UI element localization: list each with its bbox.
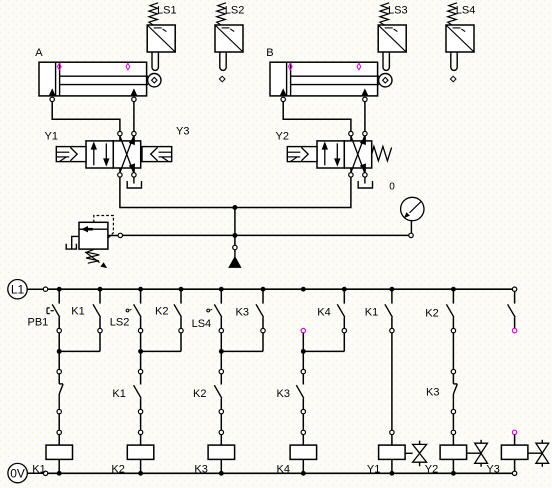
- node under K4: [342, 328, 346, 332]
- junction L1: [98, 287, 103, 292]
- junction L1: [261, 287, 266, 292]
- contact K3 (mid): [296, 374, 304, 410]
- junction L1: [301, 287, 306, 292]
- svg-text:Y3: Y3: [486, 463, 499, 475]
- plunger LS1: [152, 52, 158, 70]
- pressure source: [234, 250, 236, 258]
- flow arrows parallel position: [322, 141, 341, 166]
- port node A left: [50, 97, 54, 101]
- junction: [301, 349, 306, 354]
- relief pilot dashed line: [94, 216, 114, 239]
- marker under LS4: [450, 76, 456, 82]
- node under LS4: [219, 328, 223, 332]
- contact K2 (mid): [214, 374, 222, 410]
- svg-text:B: B: [266, 47, 273, 59]
- svg-text:K3: K3: [194, 463, 207, 475]
- valve symbol Y1: [405, 441, 427, 467]
- relief drain to tank: [72, 236, 79, 249]
- source riser wire: [234, 208, 236, 246]
- wire rung down: [302, 333, 304, 352]
- svg-text:K3: K3: [236, 306, 249, 318]
- limit switch LS1: [147, 25, 175, 52]
- svg-text:Y1: Y1: [45, 130, 58, 142]
- svg-text:LS2: LS2: [225, 4, 245, 16]
- wire branch down: [99, 333, 101, 352]
- port left bottom: [118, 168, 122, 177]
- contact K1 (top): [93, 289, 101, 328]
- svg-text:Y3: Y3: [176, 125, 189, 137]
- position marker A2: [126, 63, 130, 70]
- junction 0V: [138, 471, 143, 476]
- pressure relief valve body: [79, 222, 108, 249]
- node below mid contact: [138, 409, 142, 430]
- spring LS4: [448, 3, 457, 25]
- pressure gauge 0: [401, 197, 424, 220]
- relay coil Y1: [379, 430, 406, 471]
- node under K2 (top): [179, 328, 183, 332]
- junction supply: [232, 205, 237, 210]
- svg-text:LS4: LS4: [456, 4, 476, 16]
- valve body Y2: [317, 141, 372, 168]
- solenoid Y3: [142, 147, 172, 162]
- spring LS1: [149, 3, 158, 25]
- svg-text:K3: K3: [277, 388, 290, 400]
- node under K1 (branch Y1): [390, 328, 394, 332]
- node above source: [233, 245, 237, 249]
- rod roller A: [148, 74, 161, 87]
- flow arrows crossed position: [351, 135, 369, 174]
- position marker B2: [357, 63, 361, 70]
- port left bottom: [349, 168, 353, 177]
- junction L1: [57, 287, 62, 292]
- junction L1: [219, 287, 224, 292]
- junction 0V: [219, 471, 224, 476]
- branch join wire: [59, 350, 100, 352]
- svg-text:K2: K2: [111, 463, 124, 475]
- svg-text:K1: K1: [112, 388, 125, 400]
- relay coil K1: [46, 430, 73, 471]
- branch join wire: [141, 350, 181, 352]
- svg-text:K2: K2: [425, 307, 438, 319]
- wire to mid contact: [301, 351, 305, 373]
- svg-text:K1: K1: [365, 306, 378, 318]
- NC contact unnamed (mid): [59, 374, 63, 410]
- contact K2 (top): [174, 289, 182, 328]
- wire rung Y1: [391, 333, 393, 430]
- svg-text:K3: K3: [426, 386, 439, 398]
- contact K4: [337, 289, 345, 328]
- solenoid Y2: [287, 147, 317, 162]
- port left top: [349, 131, 353, 140]
- wire to mid contact: [57, 351, 61, 373]
- wire B right port to valve Y2 port: [364, 102, 366, 132]
- tank symbol: [66, 244, 76, 249]
- relief adjust arrow: [85, 252, 109, 270]
- svg-text:K4: K4: [317, 306, 330, 318]
- svg-text:LS4: LS4: [192, 318, 212, 330]
- node under K2 (branch Y2): [451, 328, 455, 332]
- exhaust symbol: [358, 177, 372, 188]
- limit switch LS4: [446, 25, 474, 52]
- port left top: [118, 131, 122, 140]
- contact PB1: [47, 289, 60, 328]
- svg-text:Y1: Y1: [367, 463, 380, 475]
- relief valve arrow: [81, 226, 93, 232]
- flow arrows crossed position: [120, 135, 138, 174]
- supply wire valve Y1 to valve Y2: [120, 177, 351, 207]
- branch join wire: [303, 350, 344, 352]
- relay coil K4: [290, 430, 317, 471]
- contact LS2: [126, 289, 141, 328]
- port node A right: [132, 97, 136, 101]
- power rail L1: [8, 280, 517, 299]
- svg-text:L1: L1: [11, 283, 25, 297]
- pressure line: [122, 234, 408, 236]
- junction L1: [138, 287, 143, 292]
- contact K2 (branch Y2): [446, 289, 454, 328]
- return spring: [372, 146, 392, 160]
- node below mid contact: [57, 409, 61, 430]
- port arrow A left: [49, 88, 56, 95]
- valve symbol Y3: [528, 440, 549, 467]
- svg-text:Y2: Y2: [425, 463, 438, 475]
- wire rung down: [58, 333, 60, 352]
- wire A left port to valve Y1 port: [52, 102, 120, 132]
- junction 0V: [389, 471, 394, 476]
- contact LS4: [207, 289, 222, 328]
- flow arrows parallel position: [91, 141, 110, 166]
- wire to mid contact: [138, 351, 142, 373]
- port right bottom: [363, 168, 367, 177]
- port arrow B left: [280, 88, 287, 95]
- junction L1: [342, 287, 347, 292]
- relay coil K2: [127, 430, 154, 471]
- solenoid Y1: [56, 147, 86, 162]
- cylinder B: [270, 62, 379, 96]
- gauge stem: [409, 221, 413, 238]
- junction L1: [451, 287, 456, 292]
- svg-text:A: A: [35, 47, 43, 59]
- position marker B1: [288, 63, 292, 70]
- open terminal magenta (rung 7): [301, 328, 305, 332]
- node under LS2: [138, 328, 142, 332]
- open terminal magenta: [512, 328, 516, 332]
- node under PB1: [57, 328, 61, 332]
- plunger LS4: [451, 52, 457, 70]
- wire branch down: [262, 333, 264, 352]
- wire branch down: [180, 333, 182, 352]
- wire rung down: [220, 333, 222, 352]
- wire to mid contact: [219, 351, 223, 373]
- valve symbol Y2: [467, 440, 488, 467]
- spring LS2: [217, 3, 226, 25]
- svg-text:LS2: LS2: [110, 317, 130, 329]
- contact K1 (mid): [134, 374, 142, 410]
- valve body Y1: [86, 141, 141, 168]
- junction 0V: [451, 471, 456, 476]
- power rail 0V: [8, 463, 517, 482]
- relief output node: [108, 233, 123, 237]
- limit switch LS2: [215, 25, 243, 52]
- NC contact K3 (mid): [453, 374, 457, 410]
- junction L1: [389, 287, 394, 292]
- junction: [138, 349, 143, 354]
- wire A right port to valve Y1 port: [133, 102, 135, 132]
- svg-text:K4: K4: [277, 463, 290, 475]
- relay coil Y2: [440, 430, 467, 471]
- port arrow B right: [362, 88, 369, 95]
- cylinder A: [39, 62, 148, 96]
- node below K3: [451, 409, 455, 430]
- limit switch LS3: [378, 25, 406, 52]
- plunger LS3: [383, 52, 389, 70]
- contact K3 (top): [256, 289, 264, 328]
- svg-text:0: 0: [389, 181, 395, 192]
- svg-text:PB1: PB1: [28, 317, 49, 329]
- rod roller B: [379, 74, 392, 87]
- junction pressure line: [232, 233, 237, 238]
- exhaust symbol: [127, 177, 141, 188]
- node below mid contact: [301, 409, 305, 430]
- svg-text:K2: K2: [193, 388, 206, 400]
- wire rung Y2: [451, 333, 455, 374]
- marker under LS2: [219, 76, 225, 82]
- relief spring: [86, 249, 99, 263]
- svg-text:K1: K1: [71, 305, 84, 317]
- svg-text:K1: K1: [32, 463, 45, 475]
- port right bottom: [132, 168, 136, 177]
- plunger LS2: [220, 52, 226, 70]
- port node B left: [281, 97, 285, 101]
- position marker A1: [57, 63, 61, 70]
- port node B right: [363, 97, 367, 101]
- svg-text:0V: 0V: [10, 467, 25, 481]
- svg-text:LS3: LS3: [388, 4, 408, 16]
- svg-text:LS1: LS1: [157, 4, 177, 16]
- contact K1 (branch Y1): [385, 289, 393, 328]
- wire branch down: [343, 333, 345, 352]
- relay coil Y3: [501, 430, 528, 471]
- wire rung down: [140, 333, 142, 352]
- node below mid contact: [219, 409, 223, 430]
- junction 0V: [301, 471, 306, 476]
- junction: [57, 349, 62, 354]
- port arrow A right: [131, 88, 138, 95]
- contact unconnected (right): [508, 291, 515, 328]
- svg-text:K2: K2: [155, 305, 168, 317]
- relay coil K3: [208, 430, 235, 471]
- node under K1 (top): [98, 328, 102, 332]
- junction 0V: [57, 471, 62, 476]
- junction L1: [179, 287, 184, 292]
- svg-text:Y2: Y2: [276, 130, 289, 142]
- port right top: [132, 131, 136, 140]
- port right top: [363, 131, 367, 140]
- wire B left port to valve Y2 port: [283, 102, 351, 132]
- node under K3 (top): [261, 328, 265, 332]
- spring LS3: [380, 3, 389, 25]
- junction: [219, 349, 224, 354]
- branch join wire: [221, 350, 263, 352]
